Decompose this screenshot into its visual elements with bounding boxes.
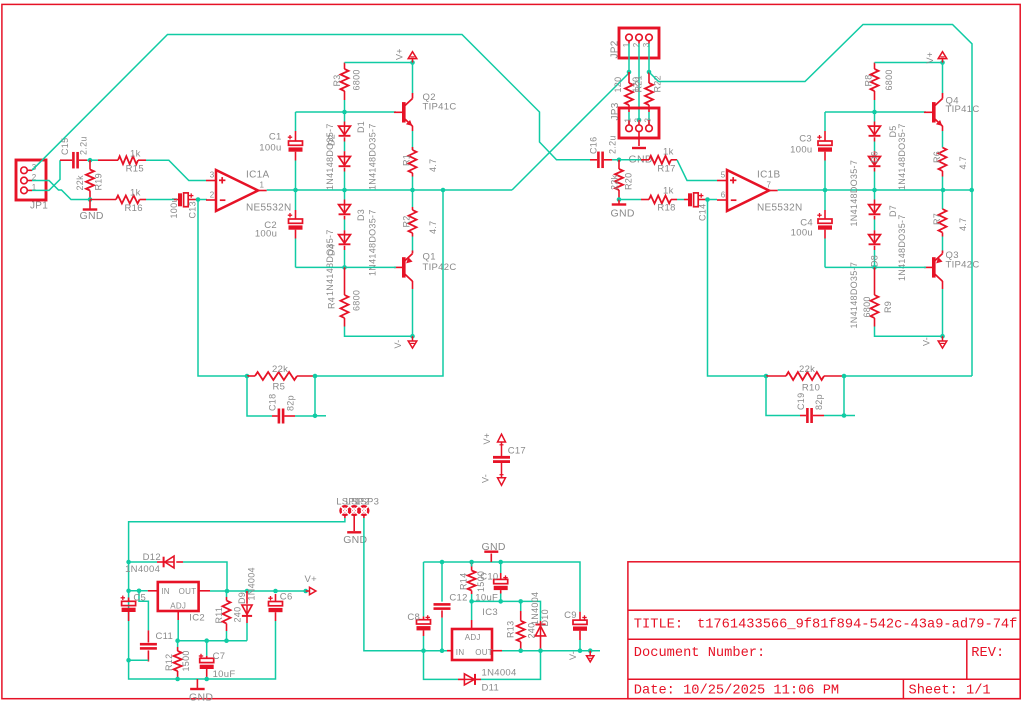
svg-text:10uF: 10uF (213, 669, 236, 680)
svg-text:1N4148DO35-7: 1N4148DO35-7 (325, 123, 335, 190)
svg-text:D11: D11 (482, 682, 500, 693)
wire IN rail (129, 590, 148, 592)
svg-text:V+: V+ (482, 433, 492, 445)
svg-text:C12: C12 (449, 592, 467, 603)
node rail/R12 (175, 677, 180, 682)
diode D6 1N4148 (849, 142, 880, 227)
svg-text:1N4148DO35-7: 1N4148DO35-7 (368, 209, 378, 276)
svg-text:TIP42C: TIP42C (423, 262, 457, 273)
node D12 branch (126, 560, 131, 565)
node R5 right (313, 374, 318, 379)
node output/R6R7 (941, 188, 946, 193)
wire R4 to V- rail (345, 327, 413, 337)
svg-text:3: 3 (643, 118, 652, 123)
wire C3 upper lead (824, 112, 826, 131)
capacitor C12 (434, 592, 468, 650)
svg-text:NE5532N: NE5532N (757, 203, 802, 214)
svg-text:C13: C13 (188, 201, 198, 218)
svg-text:4.7: 4.7 (428, 159, 438, 172)
supply V+ output (305, 574, 318, 595)
svg-text:TIP41C: TIP41C (423, 101, 457, 112)
node C13/IC1A pin2/feedback (196, 197, 201, 202)
svg-text:R19: R19 (93, 173, 103, 190)
svg-text:C10: C10 (480, 571, 498, 582)
svg-text:C7: C7 (213, 651, 226, 662)
ground GND (IC2) (189, 679, 213, 703)
resistor R12 1500 (164, 641, 191, 679)
svg-text:120: 120 (613, 77, 623, 93)
svg-text:R6: R6 (932, 151, 942, 163)
capacitor C14 100u (684, 193, 708, 221)
diode D10 1N4004 (530, 592, 550, 651)
wire C14 node to IC1B pin6 (708, 199, 718, 201)
wire ADJ to rail (177, 620, 179, 641)
node JP3 pin2 (637, 118, 642, 123)
node ADJ/R14 (469, 599, 474, 604)
svg-text:IC2: IC2 (189, 612, 205, 623)
svg-text:R14: R14 (459, 573, 469, 590)
svg-text:V-: V- (393, 339, 403, 348)
node output/C3C4 (823, 188, 828, 193)
node output/C1C2 (293, 188, 298, 193)
supply V- (C17) (481, 463, 506, 485)
node output/diodes right (872, 188, 877, 193)
capacitor C3 100u (790, 131, 832, 161)
node output/feedback right (969, 188, 974, 193)
svg-text:R12: R12 (164, 654, 174, 671)
wire D11 loop left (424, 651, 459, 680)
node R10 right (842, 374, 847, 379)
wire C19 branch right (824, 376, 844, 416)
node V- out (588, 648, 593, 653)
svg-text:R9: R9 (883, 301, 893, 313)
node IN/C12 (440, 648, 445, 653)
connector JP1 (16, 160, 48, 212)
svg-text:C6: C6 (280, 592, 293, 603)
wire IN rail (IC3) (424, 650, 448, 652)
svg-text:R7: R7 (932, 213, 942, 225)
svg-text:C5: C5 (133, 593, 146, 604)
connector JP2 (610, 28, 660, 59)
node GND rail/R14 (469, 560, 474, 565)
svg-text:Date: 10/25/2025 11:06 PM: Date: 10/25/2025 11:06 PM (634, 683, 839, 698)
svg-text:100u: 100u (255, 229, 277, 240)
svg-text:V-: V- (568, 651, 578, 660)
svg-text:1k: 1k (663, 147, 674, 158)
resistor R16 1k (90, 188, 146, 214)
svg-text:C9: C9 (564, 610, 577, 621)
wire R21 to JP3 pin1 (628, 112, 630, 125)
resistor R19 22k (75, 160, 104, 199)
ground GND (R20) (611, 200, 635, 220)
wire C3 top rail (825, 111, 926, 113)
node ADJ/R11 (224, 638, 229, 643)
wire JP1 pin2 to R16 node (32, 181, 90, 200)
svg-text:82p: 82p (286, 395, 296, 411)
svg-text:120: 120 (631, 77, 641, 93)
svg-text:1N4148DO35-7: 1N4148DO35-7 (897, 214, 907, 281)
svg-text:V-: V- (481, 474, 491, 483)
svg-text:100u: 100u (790, 145, 812, 156)
wire ADJ rail (IC3) (472, 601, 541, 621)
svg-text:1k: 1k (130, 188, 141, 199)
wire feedback right vertical (708, 200, 767, 377)
resistor R17 1k (641, 147, 677, 175)
svg-text:R17: R17 (657, 164, 675, 175)
capacitor C15 2.2u (60, 136, 89, 168)
node ADJ/R12 (175, 638, 180, 643)
wire V+ rail left (345, 62, 413, 64)
resistor R15 1k (98, 148, 146, 174)
wire R2 to Q1 emitter (412, 237, 414, 251)
svg-text:6: 6 (721, 190, 726, 199)
regulator IC2 (148, 582, 210, 623)
wire feedback to output node (315, 190, 443, 376)
resistor R11 240 (214, 591, 243, 641)
wire bottom rail right (825, 266, 926, 268)
diode D4 1N4148 (325, 220, 350, 297)
svg-text:1500: 1500 (181, 650, 191, 671)
wire C19 branch left (766, 376, 800, 416)
svg-text:1N4004: 1N4004 (530, 592, 540, 625)
resistor R18 1k (619, 185, 677, 213)
svg-text:V+: V+ (925, 52, 935, 64)
svg-text:1k: 1k (663, 185, 674, 196)
svg-text:IC1B: IC1B (757, 170, 780, 181)
node C11 bottom (126, 658, 131, 663)
transistor Q2 TIP41C (394, 92, 457, 126)
resistor R10 22k (766, 364, 844, 394)
resistor R7 4.7 (932, 209, 968, 237)
wire C15 to R15/R19 junction (87, 159, 98, 161)
svg-text:R16: R16 (125, 203, 143, 214)
wire R15 to IC1A pin3 (146, 160, 206, 180)
svg-text:TIP41C: TIP41C (946, 104, 980, 115)
svg-text:1: 1 (623, 118, 632, 123)
svg-text:100u: 100u (791, 228, 813, 239)
svg-text:IC1A: IC1A (246, 170, 269, 181)
solder pad LSP1 (336, 497, 360, 517)
resistor R2 4.7 (402, 207, 439, 237)
svg-text:OUT: OUT (475, 648, 493, 657)
transistor Q1 TIP42C (394, 251, 457, 282)
svg-text:6800: 6800 (352, 290, 362, 311)
svg-text:JP3: JP3 (610, 102, 621, 120)
wire D11 loop right (481, 651, 541, 680)
capacitor C16 2.2u (589, 135, 618, 168)
wire C2 from output rail (295, 190, 297, 210)
wire C1 top rail (296, 111, 397, 113)
wire V+ rail right (875, 62, 943, 64)
svg-text:1N4004: 1N4004 (125, 564, 160, 575)
wire IC1B output rail (778, 189, 972, 191)
title block frame and text (628, 562, 1020, 699)
wire R1 to output rail (412, 177, 414, 191)
svg-text:100u: 100u (259, 143, 281, 154)
wire LSP1 to regulator input (129, 515, 345, 679)
capacitor C10 10uF (475, 562, 507, 603)
resistor R1 4.7 (402, 147, 439, 177)
node GND rail/C10 (498, 560, 503, 565)
wire JP2 pin3 to right amp (649, 25, 972, 377)
node R20 bottom (617, 197, 622, 202)
svg-text:240: 240 (233, 607, 243, 623)
resistor R8 6800 (864, 63, 895, 101)
resistor R13 240 (506, 601, 537, 650)
diode D5 1N4148 (869, 112, 907, 190)
svg-text:C1: C1 (269, 132, 282, 143)
connector JP3 (610, 102, 659, 138)
wire C13 node to IC1A pin2 (198, 199, 207, 201)
resistor R3 6800 (332, 63, 362, 101)
diode D9 1N4004 (237, 567, 257, 641)
wire C18 stub (315, 415, 326, 417)
op-amp IC1B (717, 170, 802, 214)
svg-text:5: 5 (721, 170, 726, 179)
diode D3 1N4148 (339, 190, 378, 276)
wire Q4 emitter to R6 (942, 126, 944, 148)
wire output diagonal to JP2 pin1 (512, 73, 629, 190)
svg-text:6800: 6800 (352, 69, 362, 90)
supply V+ (C17) (482, 433, 506, 456)
svg-text:4.7: 4.7 (428, 221, 438, 234)
diode D12 1N4004 (125, 552, 183, 575)
capacitor C11 (140, 630, 173, 661)
svg-text:Q1: Q1 (423, 252, 436, 263)
svg-text:R3: R3 (332, 74, 342, 86)
wire LSP3 to IC3 input (364, 515, 424, 650)
wire Q4 collector (942, 63, 944, 94)
node IN rail (126, 589, 131, 594)
wire JP2 pin1 down (628, 44, 630, 73)
node ADJ/R13 (518, 599, 523, 604)
ground GND (IC3 top) (482, 541, 506, 562)
svg-text:1N4148DO35-7: 1N4148DO35-7 (849, 262, 859, 329)
svg-text:D6: D6 (870, 151, 880, 163)
node C14/IC1B pin6/feedback (705, 197, 710, 202)
diode D2 1N4148 (325, 123, 350, 190)
node diodes top right (872, 110, 877, 115)
svg-text:REV:: REV: (971, 646, 1004, 661)
transistor Q4 TIP41C (924, 93, 980, 126)
svg-text:C14: C14 (698, 204, 708, 221)
supply V- (right stage) (922, 336, 947, 348)
node V+ out (303, 589, 308, 594)
svg-text:IN: IN (161, 587, 170, 596)
svg-text:1N4148DO35-7: 1N4148DO35-7 (849, 160, 859, 227)
svg-text:C16: C16 (589, 137, 599, 154)
wire R9 to V- rail (875, 327, 943, 337)
wire C18 branch left (247, 376, 272, 416)
svg-text:C8: C8 (407, 612, 420, 623)
svg-text:4.7: 4.7 (958, 218, 968, 231)
node JP2 pin1/R21 (627, 70, 632, 75)
capacitor C2 100u (255, 210, 303, 240)
wire R16 to C13 (146, 199, 174, 201)
node C16/R20 (617, 158, 622, 163)
svg-text:R10: R10 (802, 383, 820, 394)
svg-text:D1: D1 (356, 121, 366, 133)
node OUT/R11 (225, 589, 230, 594)
ground GND (R19) (80, 200, 104, 223)
capacitor C1 100u (259, 131, 302, 161)
wire C2 to bottom rail (295, 239, 297, 268)
wire C4 from output rail (824, 190, 826, 210)
resistor R9 6800 (862, 267, 893, 326)
wire C19 stub (844, 415, 855, 417)
svg-text:R13: R13 (506, 621, 516, 638)
wire D12 to OUT node (183, 562, 227, 591)
node C18 right (313, 414, 318, 419)
svg-text:2.2u: 2.2u (608, 135, 618, 154)
resistor R20 22k (610, 160, 634, 200)
ground GND (LSP2) (343, 515, 367, 546)
wire R3 to diode node (344, 100, 346, 112)
svg-text:100u: 100u (169, 197, 179, 218)
svg-text:t1761433566_9f81f894-542c-43a9: t1761433566_9f81f894-542c-43a9-ad79-74f (697, 618, 1017, 633)
svg-text:TIP42C: TIP42C (946, 259, 980, 270)
wire C1 upper lead (295, 112, 297, 131)
svg-text:R1: R1 (402, 154, 412, 166)
wire C3 to output rail (824, 161, 826, 191)
diode D11 1N4004 (458, 668, 517, 694)
svg-text:22k: 22k (75, 175, 85, 191)
node OUT/D10 (538, 648, 543, 653)
svg-text:GND: GND (189, 691, 213, 703)
svg-text:1: 1 (260, 181, 265, 190)
wire C11 bottom (129, 659, 149, 661)
svg-text:C17: C17 (508, 446, 526, 457)
svg-text:GND: GND (482, 541, 506, 553)
wire IC1A output rail (267, 189, 512, 191)
diode D8 1N4148 (849, 220, 880, 329)
wire R6 to output rail (942, 177, 944, 191)
svg-text:ADJ: ADJ (465, 633, 481, 642)
node GND rail/C12 (440, 560, 445, 565)
capacitor C17 (493, 446, 526, 464)
node output/feedback (441, 188, 446, 193)
node C6 top (273, 589, 278, 594)
svg-text:GND: GND (611, 208, 635, 220)
node V+ right (940, 60, 945, 65)
wire R7 from output rail (942, 190, 944, 209)
svg-text:22k: 22k (799, 364, 815, 375)
svg-text:C18: C18 (268, 394, 278, 411)
node ADJ/C7 (204, 638, 209, 643)
resistor R4 6800 (327, 267, 362, 326)
wire R22 to JP3 pin3 (648, 112, 650, 125)
svg-text:V+: V+ (305, 574, 318, 585)
wire feedback right horizontal (844, 375, 972, 377)
wire JP1 pin3 to C16 (top route) (32, 35, 592, 171)
supply V+ (left stage) (395, 48, 417, 62)
capacitor C8 (407, 612, 430, 651)
svg-text:D12: D12 (143, 552, 161, 563)
svg-text:R5: R5 (273, 382, 286, 393)
svg-text:IN: IN (456, 648, 465, 657)
svg-text:R11: R11 (214, 607, 224, 624)
svg-text:2.2u: 2.2u (79, 136, 89, 155)
node JP2 pin3/R22 (647, 70, 652, 75)
svg-text:Document Number:: Document Number: (634, 646, 765, 661)
svg-text:7: 7 (767, 181, 772, 190)
svg-text:GND: GND (80, 210, 104, 222)
diode D7 1N4148 (869, 190, 907, 281)
svg-text:R2: R2 (402, 215, 412, 227)
svg-text:1N4004: 1N4004 (482, 668, 517, 679)
wire R2 from output rail (412, 190, 414, 207)
node R5 left (245, 374, 250, 379)
svg-text:1N4004: 1N4004 (247, 567, 257, 600)
capacitor C7 10uF (199, 641, 236, 680)
svg-text:D10: D10 (540, 609, 550, 626)
ground GND (JP3 pin2) (629, 132, 653, 166)
wire R8 to diode node (874, 100, 876, 112)
svg-text:OUT: OUT (179, 587, 197, 596)
op-amp IC1A (206, 170, 291, 214)
capacitor C13 100u (169, 193, 198, 219)
node OUT/C9 (578, 648, 583, 653)
svg-text:Sheet: 1/1: Sheet: 1/1 (909, 683, 991, 698)
resistor R5 22k (247, 364, 315, 393)
wire R18 to C14 (677, 199, 684, 201)
svg-text:1N4148DO35-7: 1N4148DO35-7 (897, 123, 907, 190)
svg-text:C11: C11 (156, 631, 174, 642)
svg-text:3: 3 (210, 170, 215, 179)
node diodes top (342, 110, 347, 115)
node V- left (410, 334, 415, 339)
svg-text:JP1: JP1 (30, 201, 48, 212)
wire bottom rail left (296, 266, 397, 268)
svg-text:1N4148DO35-7: 1N4148DO35-7 (325, 229, 335, 296)
wire IC3 ADJ pin (471, 601, 473, 620)
svg-text:2: 2 (210, 190, 215, 199)
node ADJ/C10 (498, 599, 503, 604)
wire input to D12 (129, 561, 157, 563)
wire Q3 collector to V- (942, 281, 944, 336)
solder pad LSP3 (355, 497, 379, 517)
resistor R22 120 (631, 72, 663, 112)
node R19 bottom (88, 197, 93, 202)
wire GND rail (IC3) (424, 562, 581, 612)
node output/R1R2 (410, 188, 415, 193)
resistor R21 120 (613, 72, 644, 112)
node output/diodes (342, 188, 347, 193)
svg-text:R15: R15 (126, 164, 144, 175)
svg-text:V-: V- (922, 337, 932, 346)
wire C12 column (441, 562, 443, 602)
wire to C11 (139, 591, 148, 631)
node IN/C8/D11 (421, 648, 426, 653)
svg-text:6800: 6800 (884, 69, 894, 90)
wire C18 branch right (295, 376, 315, 416)
node C15/R15/R19 (88, 158, 93, 163)
node C19 right (842, 413, 847, 418)
svg-text:R20: R20 (624, 173, 634, 190)
wire C8 column (423, 562, 425, 617)
svg-text:JP2: JP2 (610, 40, 621, 58)
capacitor C18 82p (268, 394, 296, 424)
capacitor C6 (268, 592, 292, 622)
node V+ left (410, 60, 415, 65)
svg-text:D9: D9 (237, 592, 247, 604)
svg-text:LSP3: LSP3 (355, 497, 379, 508)
wire Q2 emitter to R1 (412, 126, 414, 150)
wire ADJ rail (178, 640, 247, 642)
wire V+ rail (regulator) (210, 590, 306, 592)
wire C16 to R17 (612, 159, 641, 161)
wire JP2 pin3 down (648, 44, 650, 73)
